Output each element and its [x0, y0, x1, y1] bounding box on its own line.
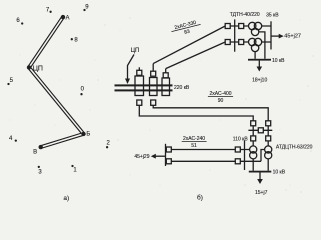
- svg-text:2хАС-240: 2хАС-240: [183, 136, 205, 142]
- svg-text:В: В: [33, 149, 37, 155]
- svg-text:220 кВ: 220 кВ: [174, 85, 190, 91]
- svg-text:45+j29: 45+j29: [134, 154, 149, 160]
- svg-text:АТДЦТН-63/220: АТДЦТН-63/220: [276, 144, 313, 150]
- svg-text:б): б): [197, 194, 203, 202]
- svg-text:Б: Б: [86, 131, 90, 137]
- svg-text:110 кВ: 110 кВ: [233, 137, 249, 143]
- svg-text:45+j27: 45+j27: [284, 34, 301, 40]
- svg-text:15+j7: 15+j7: [255, 190, 268, 196]
- svg-text:а): а): [63, 195, 69, 202]
- svg-text:90: 90: [218, 98, 224, 104]
- svg-text:10 кВ: 10 кВ: [273, 170, 286, 176]
- svg-text:А: А: [65, 16, 69, 22]
- svg-text:18+j10: 18+j10: [252, 77, 267, 83]
- svg-text:ЦП: ЦП: [131, 48, 140, 54]
- svg-text:51: 51: [191, 143, 197, 149]
- svg-text:ТДТН-40/220: ТДТН-40/220: [230, 12, 260, 18]
- svg-text:2хАС-400: 2хАС-400: [209, 91, 231, 97]
- svg-text:ЦП: ЦП: [33, 65, 43, 72]
- svg-text:35 кВ: 35 кВ: [266, 12, 279, 18]
- svg-text:10 кВ: 10 кВ: [272, 58, 285, 64]
